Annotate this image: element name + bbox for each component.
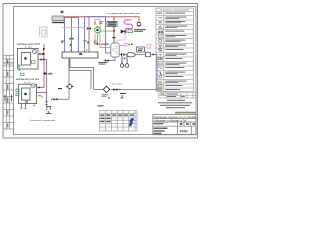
svg-text:от наружной тепловой сети: от наружной тепловой сети [107, 12, 141, 15]
svg-text:п.Марковка, ул.Мировая, д.7и8: п.Марковка, ул.Мировая, д.7и8 [154, 120, 188, 122]
svg-text:кабина мод.ХХХ: кабина мод.ХХХ [17, 44, 41, 46]
svg-text:РИМ: РИМ [180, 129, 188, 133]
svg-text:Фильтр сетч. промывной: Фильтр сетч. промывной [30, 119, 55, 122]
svg-text:Условные обозначения: Условные обозначения [160, 10, 190, 12]
svg-text:кабина мод.№2 низ: кабина мод.№2 низ [16, 78, 39, 81]
svg-text:Узел подп.: Узел подп. [112, 84, 122, 86]
svg-text:Жилищная «Жизнь» по ул.Чехова: Жилищная «Жизнь» по ул.Чехова [154, 116, 197, 119]
